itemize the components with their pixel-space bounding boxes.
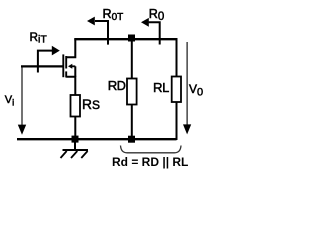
label RL bbox=[153, 81, 169, 95]
node: drain rail junction dot bbox=[128, 35, 135, 42]
wire: Vi measure line bbox=[21, 67, 23, 127]
ground bbox=[74, 142, 76, 150]
wire: RL branch top bbox=[176, 38, 178, 77]
arrow RoT measurement bbox=[95, 21, 108, 45]
wire: top rail bbox=[74, 38, 177, 40]
resistor RD bbox=[127, 79, 137, 105]
node: RD bottom junction dot bbox=[128, 136, 135, 143]
resistor RL bbox=[172, 77, 181, 103]
wire: Vo measure line bbox=[186, 42, 188, 126]
label RiT bbox=[30, 32, 47, 45]
wire: RL branch bottom bbox=[176, 102, 178, 140]
label RD bbox=[108, 79, 125, 93]
wire: bottom rail bbox=[17, 138, 177, 140]
label RoT bbox=[103, 8, 124, 23]
wire: input gate wire bbox=[21, 65, 64, 67]
label Ro bbox=[149, 8, 165, 24]
transistor Q1 channel segment lower bbox=[65, 71, 67, 77]
transistor Q1 body arrow bbox=[71, 65, 76, 67]
wire: RD branch top bbox=[131, 40, 133, 79]
transistor Q1 channel segment upper bbox=[65, 56, 67, 69]
label equation Rd = RD || RL bbox=[112, 156, 188, 168]
label RS bbox=[82, 98, 100, 112]
resistor RS bbox=[71, 95, 81, 117]
arrow RiT measurement bbox=[38, 51, 52, 73]
wire: RD branch bottom bbox=[131, 105, 133, 141]
wire: RS to bottom rail bbox=[74, 117, 76, 141]
transistor Q1 body-source tie bbox=[74, 66, 76, 76]
transistor Q1 source stub bbox=[66, 77, 75, 96]
arrow Ro measurement bbox=[149, 22, 160, 44]
transistor Q1 gate bar bbox=[62, 54, 64, 77]
node: source-ground junction dot bbox=[72, 136, 79, 143]
transistor Q1 drain stub bbox=[66, 39, 75, 58]
label Vi bbox=[5, 95, 14, 108]
brace under RD RL bbox=[121, 146, 182, 153]
label Vo bbox=[189, 83, 203, 99]
